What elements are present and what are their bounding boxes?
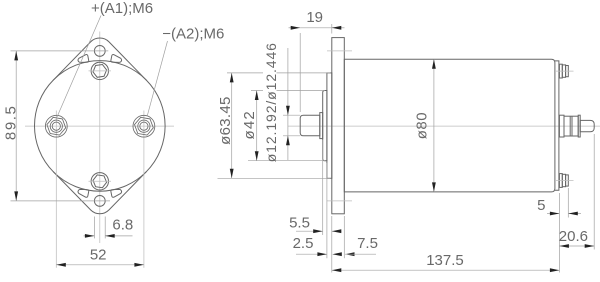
dimension o63.45 line xyxy=(231,73,233,178)
top flange outline xyxy=(53,38,146,80)
dimension 6.8 line with outside arrows xyxy=(84,235,95,237)
bottom through-bolt washer circle xyxy=(91,173,108,190)
top through-bolt nut (side) xyxy=(559,64,568,78)
dimension 7.5 extension line (flange back) xyxy=(343,216,345,258)
dimension 5 line with outside arrows xyxy=(547,213,559,215)
front view horizontal centerline xyxy=(25,125,174,127)
shaft xyxy=(300,115,320,136)
top stud centerline xyxy=(556,70,574,72)
top flange hole xyxy=(94,46,105,57)
middle terminal stud (side): washer xyxy=(559,115,564,137)
dimension 2.5 extension line xyxy=(326,163,328,258)
bottom bolt horizontal centerline xyxy=(89,180,112,182)
dimension 20.6 extension line right xyxy=(593,134,595,250)
dimension o42 extension lines xyxy=(251,90,263,92)
svg-text:52: 52 xyxy=(90,246,107,263)
dimension o63.45 extension lines xyxy=(227,72,263,74)
svg-text:20.6: 20.6 xyxy=(559,228,588,245)
dimension 19 line with outside arrows xyxy=(289,27,301,29)
dimension 5.5 extension lines xyxy=(322,140,324,235)
dimension o42 line xyxy=(256,91,258,161)
svg-text:ø80: ø80 xyxy=(413,112,430,139)
dimension 5.5 line xyxy=(296,230,323,232)
terminal stud A2 centerline vertical / 52-dim extension line xyxy=(143,111,145,268)
dimension 2.5 line xyxy=(296,253,327,255)
svg-text:5.5: 5.5 xyxy=(289,214,310,231)
motor body side view xyxy=(344,59,555,192)
flange bottom hole centerline xyxy=(327,200,352,202)
svg-text:ø42: ø42 xyxy=(241,110,258,139)
top through-bolt hex head xyxy=(93,65,107,78)
dimension 89.5 extension lines xyxy=(11,50,109,52)
svg-text:+(A1);M6: +(A1);M6 xyxy=(91,0,153,17)
dimension o12.192/o12.446 line with outside arrows xyxy=(287,48,289,160)
pilot boss disc (o42) xyxy=(323,91,327,161)
dimension 52 line xyxy=(56,264,144,266)
middle terminal stud: washer 2 xyxy=(578,115,580,137)
svg-text:−(A2);M6: −(A2);M6 xyxy=(162,26,224,43)
top flange right teardrop cutout xyxy=(111,54,122,62)
dimension 19 extension lines xyxy=(299,33,301,112)
middle terminal stud: hex nuts xyxy=(564,116,578,136)
terminal stud A2 (right) xyxy=(133,115,155,137)
flange top hole centerline xyxy=(327,50,352,52)
top bolt horizontal centerline xyxy=(89,70,112,72)
bottom flange right teardrop cutout xyxy=(111,189,122,197)
dimension 6.8 extension lines xyxy=(93,217,95,239)
dimension o12.192/o12.446 extension lines xyxy=(283,114,300,116)
label -(A2);M6 leader xyxy=(147,41,167,116)
dimension 137.5 extension line right xyxy=(558,193,560,273)
svg-text:7.5: 7.5 xyxy=(357,235,378,252)
motor body circle front xyxy=(35,61,166,192)
dimension 5 extension line xyxy=(567,188,569,218)
shaft nut/washer xyxy=(320,113,323,139)
svg-text:19: 19 xyxy=(306,9,323,26)
bottom flange outline xyxy=(53,172,146,214)
bottom flange left teardrop cutout xyxy=(78,189,89,197)
terminal stud A1 centerline vertical / 52-dim extension line xyxy=(55,111,57,268)
svg-text:2.5: 2.5 xyxy=(293,235,314,252)
dimension 137.5 line xyxy=(332,269,560,271)
front view vertical centerline xyxy=(99,32,101,244)
terminal stud A1 (left) xyxy=(45,115,67,137)
bottom flange hole xyxy=(94,196,105,207)
svg-text:ø12.192/ø12.446: ø12.192/ø12.446 xyxy=(263,42,279,162)
label +(A1);M6 leader xyxy=(57,16,101,118)
bottom through-bolt nut (side) xyxy=(559,174,568,188)
bottom stud centerline xyxy=(556,179,574,181)
svg-text:5: 5 xyxy=(537,197,545,214)
svg-text:137.5: 137.5 xyxy=(426,252,464,269)
end cap band xyxy=(555,61,559,190)
dimension o80 line xyxy=(433,59,435,192)
dimension 20.6 line xyxy=(559,245,594,247)
top through-bolt washer circle xyxy=(91,62,108,79)
register disc (o63.45) xyxy=(327,73,332,178)
svg-text:6.8: 6.8 xyxy=(112,217,133,234)
bottom through-bolt hex head xyxy=(93,175,107,188)
side view horizontal centerline xyxy=(288,125,600,127)
svg-text:ø63.45: ø63.45 xyxy=(217,96,234,145)
dimension 7.5 arrows and line xyxy=(332,252,342,256)
mounting flange plate xyxy=(332,38,345,214)
svg-text:89.5: 89.5 xyxy=(3,104,20,140)
top flange left teardrop cutout xyxy=(78,54,89,62)
dimension 89.5 line xyxy=(15,51,17,201)
flange-face extension line (for 2.5/7.5/137.5) xyxy=(331,216,333,273)
middle terminal stud: threaded end xyxy=(580,120,594,131)
